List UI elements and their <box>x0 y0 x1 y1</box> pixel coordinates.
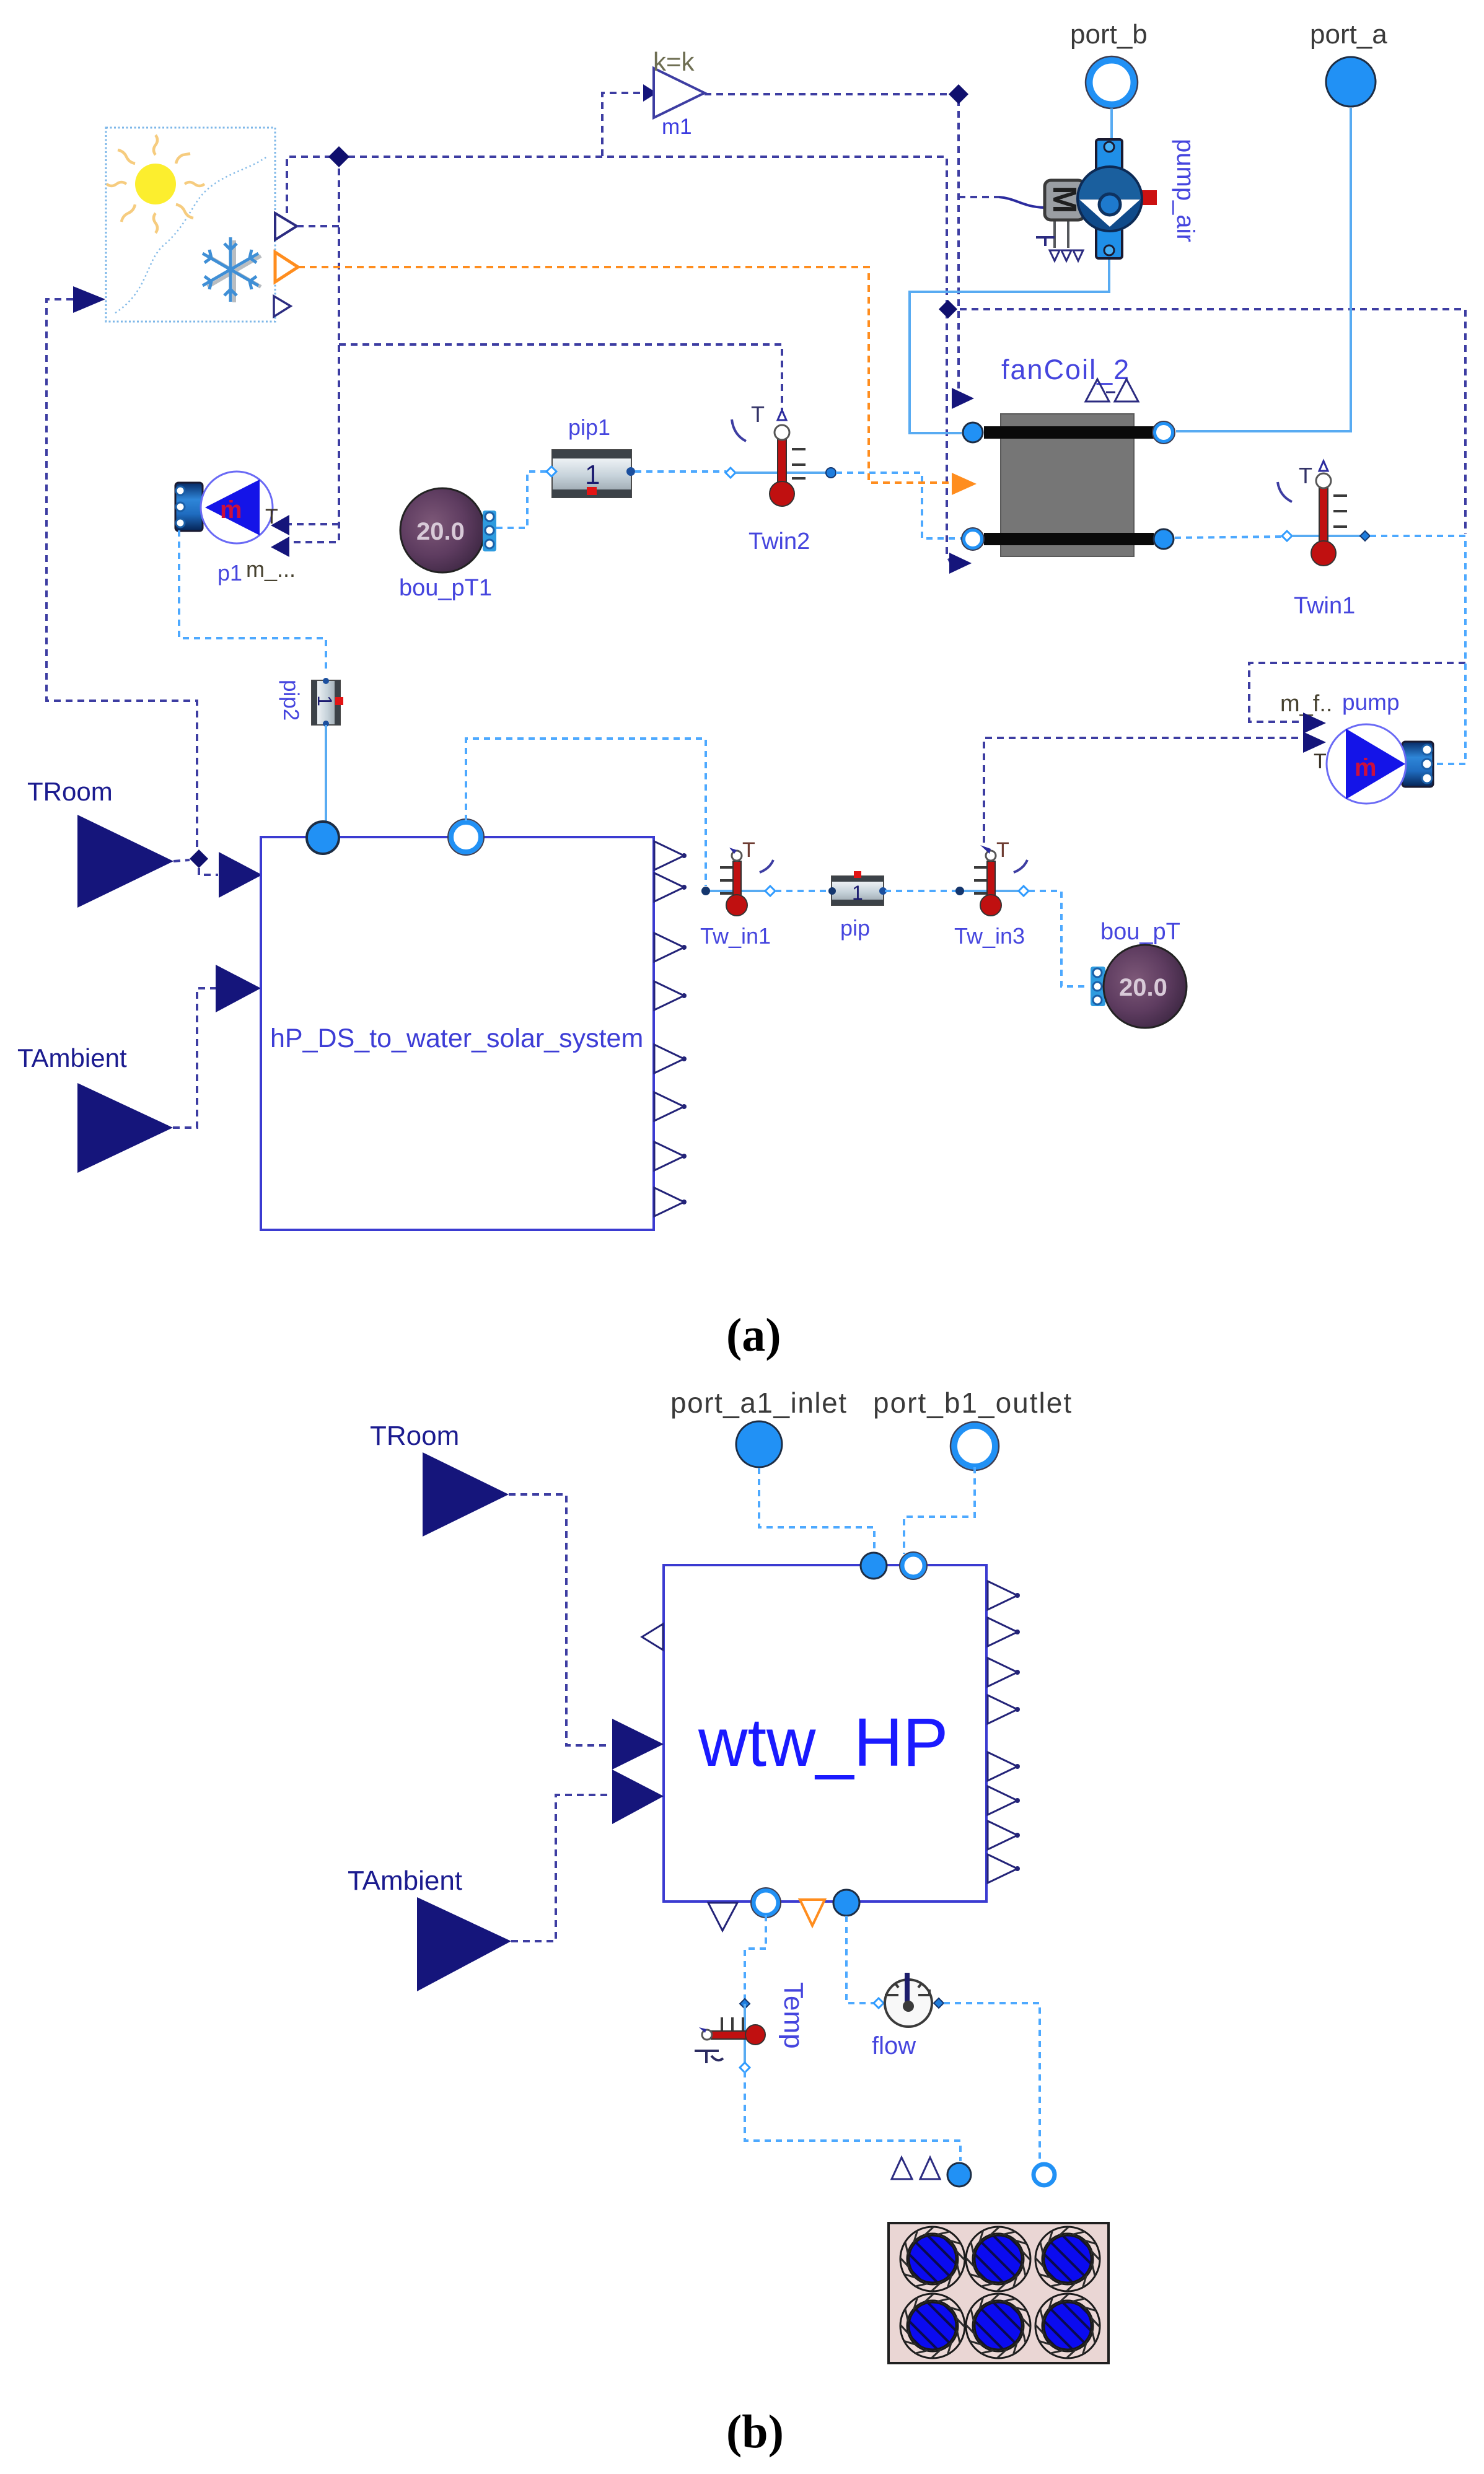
svg-text:1: 1 <box>585 460 600 490</box>
pump input arrows <box>1303 713 1326 734</box>
wire p1 to pip2 (fluid) <box>179 530 326 673</box>
wire TRoom to wtw_HP <box>509 1494 610 1745</box>
fanCoil input arrows <box>952 388 974 409</box>
svg-text:bou_pT: bou_pT <box>1100 919 1180 945</box>
wire fanCoil bottom-right to Twin1 <box>1175 537 1282 538</box>
svg-text:1: 1 <box>314 695 336 706</box>
wtw_HP input arrow 2 <box>612 1770 664 1824</box>
wire flow to collector outlet <box>944 2003 1040 2162</box>
wire stub from out1 tip <box>297 225 339 227</box>
svg-text:T: T <box>742 838 755 862</box>
svg-text:ṁ: ṁ <box>1354 754 1377 781</box>
hP box input arrow 1 <box>219 852 262 898</box>
wire Temp to collector inlet <box>745 2071 960 2161</box>
orange control wire <box>298 267 952 483</box>
svg-text:port_a1_inlet: port_a1_inlet <box>670 1387 847 1419</box>
weather box TRoom input arrow <box>73 286 105 313</box>
boundary bou_pT1 <box>399 488 496 601</box>
hP port a (blue) <box>307 822 339 854</box>
thermometer Tw_in3 <box>954 838 1029 949</box>
hP box input arrow 2 <box>216 965 261 1012</box>
hP_DS_to_water_solar_system block <box>261 837 654 1230</box>
hP right chevrons <box>654 841 687 870</box>
svg-text:k=k: k=k <box>653 47 695 76</box>
TRoom net: vertical left riser <box>46 299 197 849</box>
svg-text:hP_DS_to_water_solar_system: hP_DS_to_water_solar_system <box>270 1024 643 1053</box>
node diamond at bus top <box>328 146 349 167</box>
wire Twin1 to pump fluid port <box>1370 536 1465 764</box>
wire Tw_in1 to pip <box>775 890 829 892</box>
svg-text:m1: m1 <box>662 115 692 139</box>
wire TAmbient to hP input2 <box>173 988 216 1128</box>
svg-text:m_f..: m_f.. <box>1280 691 1332 717</box>
wire Twin2 to fanCoil bottom-left port <box>836 473 962 538</box>
svg-text:port_b1_outlet: port_b1_outlet <box>873 1387 1073 1419</box>
svg-text:flow: flow <box>872 2032 916 2059</box>
collector triangles <box>892 2157 912 2179</box>
wire hP white port to Tw_in1 <box>466 739 706 886</box>
svg-text:(a): (a) <box>726 1309 781 1361</box>
wire pump_air to fanCoil top-left <box>910 257 1109 433</box>
thermometer Twin1 <box>1278 461 1370 619</box>
svg-text:TRoom: TRoom <box>27 777 113 806</box>
wtw_HP input arrow 1 <box>612 1719 664 1770</box>
svg-text:20.0: 20.0 <box>416 518 465 545</box>
svg-text:Twin2: Twin2 <box>749 529 810 555</box>
svg-text:ṁ: ṁ <box>220 496 242 524</box>
collector outlet port <box>1034 2164 1055 2185</box>
svg-text:pip: pip <box>840 915 870 941</box>
wtw_HP top ports <box>861 1553 887 1579</box>
svg-text:TRoom: TRoom <box>370 1421 459 1451</box>
wtw_HP block <box>664 1565 986 1902</box>
pipe pip1 <box>547 415 635 498</box>
wire wtw_HP to Temp sensor <box>745 1915 766 2000</box>
weather box output port 2 (orange triangle) <box>275 252 298 282</box>
snowflake icon <box>203 237 261 302</box>
wire Tw_in3 to bou_pT <box>1029 891 1088 986</box>
svg-text:Tw_in1: Tw_in1 <box>700 923 771 949</box>
borehole collector <box>889 2223 1109 2363</box>
svg-text:pump: pump <box>1342 690 1400 715</box>
pump (bottom right) <box>1280 690 1433 804</box>
wtw_HP left chevron <box>642 1624 663 1650</box>
svg-text:pip1: pip1 <box>568 415 610 440</box>
hP port b (white) <box>451 822 481 852</box>
svg-text:port_a: port_a <box>1310 19 1387 50</box>
svg-text:m_...: m_... <box>246 556 296 582</box>
svg-text:p1: p1 <box>217 560 242 586</box>
p1 input arrows <box>271 515 289 535</box>
svg-text:T: T <box>1314 750 1327 773</box>
svg-text:20.0: 20.0 <box>1119 974 1167 1001</box>
wtw_HP right chevrons <box>988 1581 1020 1610</box>
node diamond TRoom junction <box>190 849 208 868</box>
svg-text:Twin1: Twin1 <box>1294 593 1355 619</box>
svg-text:pip2: pip2 <box>279 680 303 721</box>
boundary bou_pT <box>1091 919 1187 1028</box>
wire wtw_HP to flow sensor <box>846 1916 875 2003</box>
wire gain output to right <box>705 94 959 390</box>
node diamond mid bus <box>939 300 957 318</box>
weather box output port 3 (small triangle) <box>274 296 291 317</box>
svg-text:fanCoil_2: fanCoil_2 <box>1001 354 1130 385</box>
wire to k=k gain input <box>602 93 646 156</box>
wtw_HP bottom ports <box>708 1903 737 1931</box>
wire port_a to fanCoil top-right <box>1176 108 1351 431</box>
weather box output port 1 (triangle) <box>275 213 297 240</box>
collector inlet port <box>947 2163 971 2187</box>
sun icon <box>107 135 204 233</box>
wire weather out1 to bus vertical <box>287 157 951 563</box>
svg-text:T: T <box>996 838 1009 862</box>
svg-text:T: T <box>1299 463 1312 488</box>
weather data reader box <box>106 128 275 322</box>
thermometer Twin2 <box>726 401 836 555</box>
svg-text:TAmbient: TAmbient <box>348 1866 462 1896</box>
fanCoil_2 heat exchanger <box>962 354 1175 556</box>
svg-text:bou_pT1: bou_pT1 <box>399 575 492 601</box>
svg-text:TAmbient: TAmbient <box>17 1043 127 1073</box>
pipe pip <box>828 871 887 941</box>
svg-text:1: 1 <box>852 882 863 904</box>
svg-text:Tw_in3: Tw_in3 <box>954 923 1025 949</box>
wire TAmbient to wtw_HP <box>511 1795 610 1941</box>
wire bou_pT1 to pip1 <box>496 472 548 528</box>
wire bus down to p1 inputs <box>289 157 339 542</box>
wire to Twin2 sensor <box>339 344 782 410</box>
svg-text:pump_air: pump_air <box>1172 139 1199 242</box>
flow sensor gauge <box>872 1973 944 2059</box>
wire port_a1_inlet to wtw_HP <box>759 1468 874 1551</box>
svg-text:port_b: port_b <box>1070 19 1148 50</box>
svg-text:wtw_HP: wtw_HP <box>698 1704 948 1781</box>
wire Tw_in3 to pump input2 <box>984 738 1299 843</box>
pipe pip2 <box>279 678 343 727</box>
wire pip to Tw_in3 <box>885 890 958 892</box>
thermometer Temp (horizontal) <box>695 1982 809 2073</box>
svg-text:T: T <box>751 401 765 427</box>
pump pump_air <box>1036 139 1199 261</box>
svg-text:(b): (b) <box>726 2406 784 2458</box>
wire branch to pump_air motor <box>959 196 999 198</box>
pump p1 <box>175 472 278 543</box>
wire port_b to pump_air <box>1110 108 1113 141</box>
gain m1 (k=k) <box>653 47 705 139</box>
wire port_b1_outlet to wtw_HP <box>904 1467 975 1554</box>
svg-text:Temp: Temp <box>778 1982 809 2049</box>
node diamond gain output <box>949 84 968 104</box>
wire bus right to pump box <box>948 309 1465 534</box>
wire pip1 to Twin2 <box>635 470 726 473</box>
wire pip2 to hP port (fluid solid) <box>325 725 327 824</box>
thermometer Tw_in1 <box>700 838 775 949</box>
